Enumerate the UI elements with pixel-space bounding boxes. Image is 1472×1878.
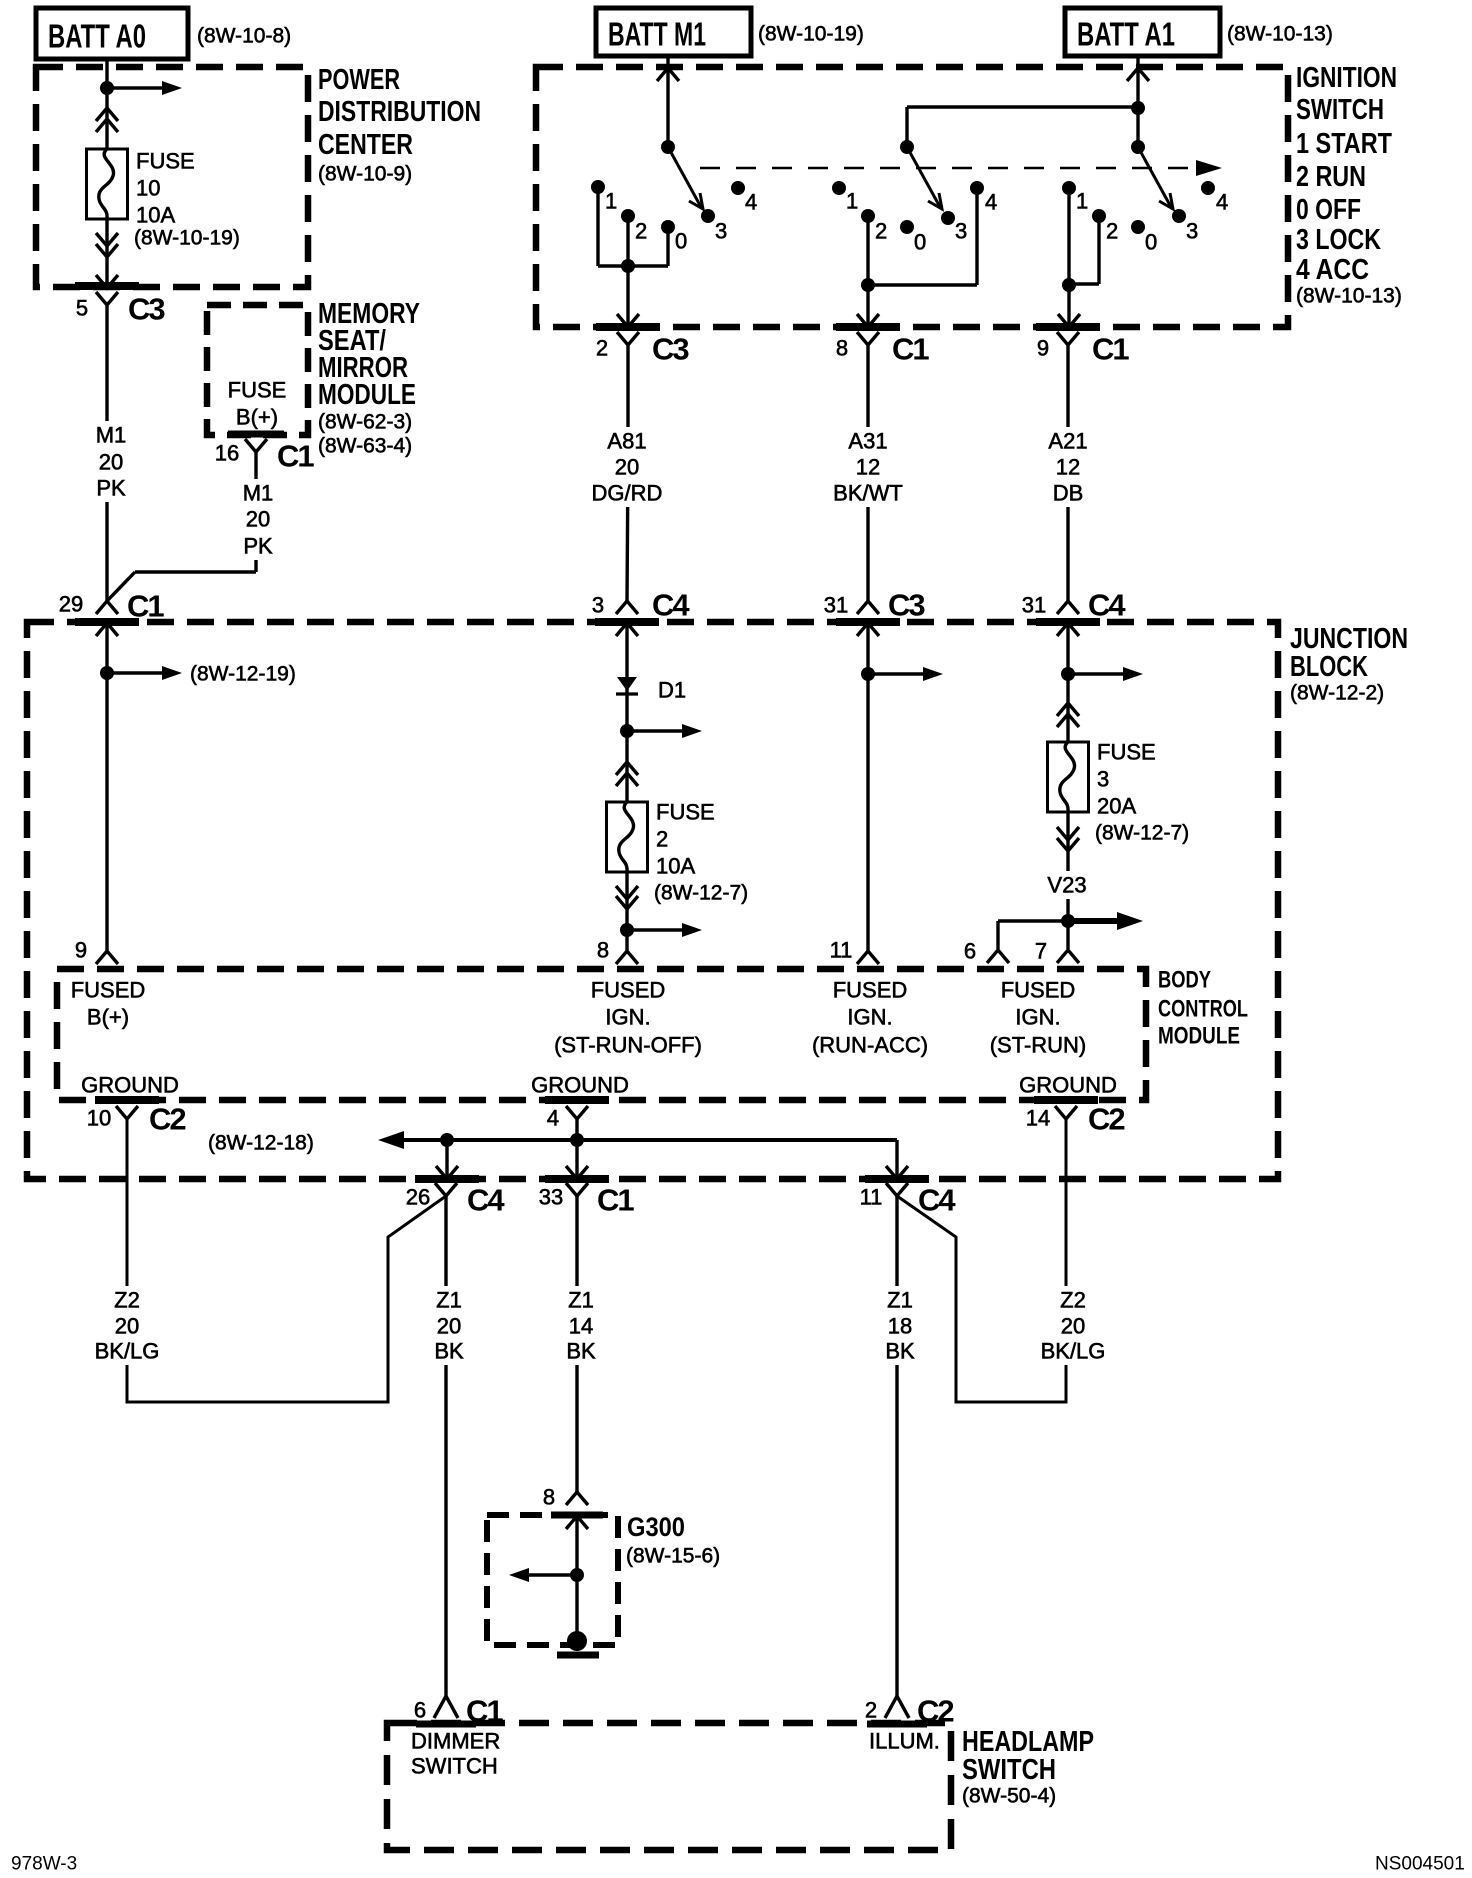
module box JUNCTION BLOCK	[27, 622, 1278, 1179]
current-path chevrons above fuse 2	[616, 762, 638, 775]
svg-text:(8W-10-19): (8W-10-19)	[134, 227, 240, 250]
connector pad at memory module outlet	[228, 431, 284, 438]
svg-text:978W-3: 978W-3	[11, 1854, 77, 1875]
wire below fuse 3 node V23	[1066, 812, 1069, 949]
svg-text:10: 10	[87, 1106, 111, 1131]
svg-text:4: 4	[1216, 190, 1228, 215]
svg-text:BK: BK	[566, 1339, 596, 1364]
svg-text:IGN.: IGN.	[847, 1005, 892, 1030]
svg-text:(ST-RUN-OFF): (ST-RUN-OFF)	[554, 1033, 702, 1058]
svg-text:IGN.: IGN.	[1015, 1005, 1060, 1030]
connector pad at BCM pin 4	[545, 1096, 609, 1104]
svg-text:(8W-10-13): (8W-10-13)	[1227, 23, 1333, 46]
svg-text:20A: 20A	[1097, 794, 1136, 819]
svg-text:(8W-10-9): (8W-10-9)	[318, 163, 412, 186]
svg-text:C4: C4	[1088, 588, 1126, 623]
svg-text:ILLUM.: ILLUM.	[869, 1729, 940, 1754]
svg-text:(8W-15-6): (8W-15-6)	[626, 1545, 720, 1568]
module box IGNITION SWITCH	[536, 67, 1288, 327]
wire label Z1 18 BK	[876, 1286, 924, 1365]
svg-text:Z2: Z2	[1060, 1288, 1086, 1313]
svg-text:2: 2	[596, 336, 608, 361]
svg-text:A21: A21	[1048, 429, 1087, 454]
connector pad at G300	[551, 1512, 603, 1519]
switch wafer 2 feed from BATT A1 bus	[905, 107, 908, 147]
switch 3 contact 3	[1172, 209, 1186, 223]
svg-text:1 START: 1 START	[1296, 128, 1392, 160]
svg-text:C4: C4	[918, 1183, 956, 1218]
svg-text:G300: G300	[627, 1512, 685, 1542]
wire V23 branch to pin 6	[998, 919, 1068, 922]
switch 1 contact wiring	[596, 191, 599, 266]
connector pad at junction block pin 31 C3	[836, 618, 900, 626]
switch 1 output stem to pin 2	[626, 266, 629, 325]
svg-text:9: 9	[1037, 336, 1049, 361]
switch 3 contact 1	[1062, 181, 1076, 195]
svg-text:FUSED: FUSED	[591, 978, 666, 1003]
svg-text:SWITCH: SWITCH	[1296, 94, 1384, 126]
switch 2 contact 2	[861, 209, 875, 223]
connector C2 pin 14 of BCM	[1055, 1106, 1077, 1119]
connector pin 8 at ground G300	[566, 1492, 588, 1505]
svg-text:11: 11	[830, 938, 853, 963]
svg-text:MODULE: MODULE	[1158, 1023, 1240, 1050]
fuse 3 20A in junction block	[1048, 742, 1089, 812]
arrow branch to (8W-12-19)	[107, 671, 168, 674]
arrow branch on A21 wire	[1068, 672, 1129, 675]
switch wafer 1 blade to position 3	[668, 147, 701, 207]
switch 2 contact 3	[941, 211, 955, 225]
svg-text:0: 0	[914, 230, 926, 255]
svg-text:DISTRIBUTION: DISTRIBUTION	[318, 96, 481, 128]
wire Z1 18 BK to headlamp switch	[895, 1196, 898, 1696]
svg-text:FUSED: FUSED	[1001, 978, 1076, 1003]
wire BATT A1 into ignition switch	[1136, 56, 1139, 147]
current-path chevrons below fuse 3	[1057, 827, 1079, 840]
svg-text:33: 33	[539, 1185, 563, 1210]
svg-text:26: 26	[406, 1185, 430, 1210]
fuse 2 10A in junction block	[607, 802, 648, 872]
wire label Z1 20 BK	[425, 1286, 473, 1365]
svg-text:4: 4	[745, 190, 757, 215]
connector C1 pin 16 of memory module	[245, 439, 267, 452]
module box BODY CONTROL MODULE	[57, 969, 1146, 1100]
svg-text:7: 7	[1035, 939, 1047, 964]
connector pad at headlamp switch pin 2	[867, 1721, 927, 1728]
arrow branch from V23	[1068, 918, 1123, 924]
svg-text:Z2: Z2	[114, 1288, 140, 1313]
connector pad at junction block pin 31 C4	[1036, 618, 1100, 626]
svg-text:4: 4	[985, 190, 997, 215]
svg-text:BK/WT: BK/WT	[833, 481, 903, 506]
BCM terminal pin 11 fused ign run-acc	[857, 951, 879, 964]
svg-text:6: 6	[964, 939, 976, 964]
switch wafer 3 blade to position 3	[1138, 147, 1171, 207]
svg-text:BATT M1: BATT M1	[608, 16, 706, 53]
connector pad at junction block pin 26	[415, 1175, 479, 1183]
svg-text:NS004501: NS004501	[1375, 1854, 1465, 1875]
svg-text:12: 12	[1056, 455, 1080, 480]
svg-text:3: 3	[715, 219, 727, 244]
svg-text:C3: C3	[652, 332, 689, 367]
switch 3 output stem to pin 9	[1067, 285, 1070, 325]
svg-text:1: 1	[1076, 189, 1088, 214]
module box MEMORY SEAT/MIRROR MODULE	[207, 305, 308, 435]
current-path chevrons above fuse 3	[1057, 703, 1079, 716]
svg-text:6: 6	[414, 1698, 426, 1723]
switch 3 contact 2	[1092, 209, 1106, 223]
connector C4 pin 31 of junction block	[1057, 601, 1079, 614]
battery feed box BATT A1	[1065, 8, 1220, 56]
switch 1 contact 2	[621, 209, 635, 223]
ground bus wire inside junction block	[398, 1138, 897, 1142]
connector C3 pin 5 of PDC	[96, 292, 118, 305]
ganged-switch dashed link line	[700, 167, 1196, 170]
switch 3 contact wiring	[1067, 192, 1070, 285]
switch 2 contact 4	[970, 181, 984, 195]
svg-text:3 LOCK: 3 LOCK	[1296, 224, 1381, 256]
svg-text:16: 16	[215, 441, 239, 466]
terminal arrow into junction block pin 11	[886, 1166, 908, 1179]
svg-text:20: 20	[437, 1314, 461, 1339]
wire Z1 20 BK to dimmer switch	[444, 1196, 447, 1696]
terminal arrow into junction block pin 26	[436, 1166, 458, 1179]
wire label M1 20 PK	[87, 421, 135, 502]
svg-text:2: 2	[875, 219, 887, 244]
connector pin 4 of BCM	[566, 1106, 588, 1119]
svg-text:Z1: Z1	[568, 1288, 594, 1313]
wire from pin 31 C4 to fuse 3	[1066, 623, 1069, 742]
fuse 10 10A in PDC	[87, 149, 128, 219]
svg-text:M1: M1	[243, 481, 274, 506]
connector C4 pin 3 of junction block	[616, 601, 638, 614]
switch 1 contact 0	[661, 220, 675, 234]
svg-text:(8W-50-4): (8W-50-4)	[962, 1785, 1056, 1808]
svg-text:C1: C1	[1092, 332, 1129, 367]
switch 2 contact 1	[832, 181, 846, 195]
wire fused ignition run-acc through junction block	[866, 623, 869, 951]
svg-text:10A: 10A	[136, 203, 175, 228]
connector C1 pin 9 of ignition switch	[1057, 332, 1079, 345]
svg-text:IGNITION: IGNITION	[1296, 62, 1397, 94]
terminal arrow into ignition switch (BATT A1)	[1127, 68, 1149, 81]
wire A31 from ignition switch to BCM	[866, 345, 869, 601]
wire Z1 14 BK to ground G300	[575, 1196, 578, 1492]
connector pad at BCM pin 10	[95, 1096, 159, 1104]
wire BATT M1 into ignition switch	[666, 56, 669, 147]
wire label Z2 20 BK/LG left	[94, 1286, 160, 1365]
connector C4 pin 26 below junction block	[435, 1183, 457, 1196]
svg-text:BATT A0: BATT A0	[48, 18, 146, 55]
svg-text:DG/RD: DG/RD	[592, 481, 663, 506]
svg-text:D1: D1	[658, 678, 686, 703]
svg-text:DB: DB	[1053, 481, 1084, 506]
svg-text:2: 2	[1106, 219, 1118, 244]
svg-text:20: 20	[1061, 1314, 1085, 1339]
svg-text:4 ACC: 4 ACC	[1296, 254, 1369, 286]
module box HEADLAMP SWITCH	[387, 1723, 951, 1850]
svg-text:M1: M1	[96, 423, 127, 448]
svg-text:8: 8	[597, 938, 609, 963]
current-path chevrons below fuse 10	[96, 233, 118, 246]
svg-text:B(+): B(+)	[236, 405, 278, 430]
svg-text:20: 20	[246, 507, 270, 532]
svg-text:FUSE: FUSE	[656, 800, 715, 825]
junction node on A21 wire	[1061, 667, 1075, 681]
switch 1 contact 3	[701, 209, 715, 223]
svg-text:(8W-12-18): (8W-12-18)	[208, 1132, 314, 1155]
connector pad at junction block pin 29	[75, 618, 139, 626]
junction node BATT A1 bus	[1131, 101, 1145, 115]
connector C1 pin 33 below junction block	[566, 1183, 588, 1196]
junction node ground bus left	[440, 1133, 454, 1147]
svg-text:(8W-12-7): (8W-12-7)	[654, 882, 748, 905]
connector C2 pin 2 of headlamp switch	[885, 1696, 909, 1718]
svg-text:FUSE: FUSE	[136, 149, 195, 174]
connector pad at ignition switch pin 9	[1036, 323, 1100, 331]
junction node ground bus right	[570, 1133, 584, 1147]
svg-text:GROUND: GROUND	[531, 1073, 629, 1098]
svg-text:8: 8	[543, 1485, 555, 1510]
wire below fuse 10	[105, 219, 108, 286]
connector C3 pin 31 of junction block	[857, 601, 879, 614]
wire label Z2 20 BK/LG right	[1040, 1286, 1106, 1365]
svg-text:BK: BK	[885, 1339, 915, 1364]
switch 2 output stem to pin 8	[866, 285, 869, 325]
junction node at pin 8 feed	[620, 923, 634, 937]
svg-text:C2: C2	[1088, 1102, 1124, 1137]
connector C3 pin 2 of ignition switch	[617, 332, 639, 345]
svg-text:C4: C4	[652, 588, 690, 623]
svg-text:BK: BK	[434, 1339, 464, 1364]
switch wafer 2 pivot	[900, 140, 914, 154]
svg-text:CONTROL: CONTROL	[1158, 996, 1248, 1023]
svg-text:C3: C3	[888, 588, 925, 623]
wire inside G300	[575, 1516, 578, 1636]
svg-text:IGN.: IGN.	[605, 1005, 650, 1030]
BCM terminal pin 9 fused B+	[96, 951, 118, 964]
arrow branch at pin 8 feed	[627, 928, 688, 931]
svg-text:V23: V23	[1047, 873, 1086, 898]
svg-text:2: 2	[635, 219, 647, 244]
connector pad at BCM pin 14	[1034, 1096, 1098, 1104]
svg-text:3: 3	[1186, 219, 1198, 244]
wire label Z1 14 BK	[557, 1286, 605, 1365]
node label V23	[1039, 871, 1095, 899]
connector C4 pin 11 below junction block	[886, 1183, 908, 1196]
svg-text:BK/LG: BK/LG	[95, 1339, 160, 1364]
switch wafer 2 blade to position 3	[907, 147, 940, 207]
connector C1 pin 8 of ignition switch	[857, 332, 879, 345]
svg-text:0: 0	[1145, 230, 1157, 255]
svg-text:(8W-10-13): (8W-10-13)	[1296, 285, 1402, 308]
switch 3 contact 4	[1201, 181, 1215, 195]
arrow branch in G300	[523, 1573, 577, 1576]
svg-text:POWER: POWER	[318, 64, 400, 96]
svg-text:(8W-12-19): (8W-12-19)	[190, 663, 296, 686]
svg-text:4: 4	[547, 1106, 559, 1131]
svg-text:BK/LG: BK/LG	[1041, 1339, 1106, 1364]
terminal chevron into G300	[566, 1516, 588, 1529]
svg-text:Z1: Z1	[436, 1288, 462, 1313]
svg-text:C2: C2	[149, 1102, 185, 1137]
svg-text:FUSED: FUSED	[833, 978, 908, 1003]
svg-text:1: 1	[605, 189, 617, 214]
connector C1 pin 29 of junction block	[96, 601, 118, 614]
connector pad at junction block pin 3	[595, 618, 659, 626]
ground symbol G300	[567, 1631, 587, 1651]
ground splice box G300	[487, 1515, 618, 1645]
svg-text:B(+): B(+)	[87, 1005, 129, 1030]
svg-text:GROUND: GROUND	[81, 1073, 179, 1098]
svg-text:9: 9	[75, 938, 87, 963]
current-path chevrons below fuse 2	[616, 886, 638, 899]
svg-text:20: 20	[615, 455, 639, 480]
svg-text:3: 3	[1097, 767, 1109, 792]
arrow branch to other circuits	[107, 86, 168, 89]
module box POWER DISTRIBUTION CENTER	[36, 67, 308, 287]
arrow branch on A31 wire	[868, 672, 929, 675]
wire Z2 ground loop left (BCM pin 10 to pin 26)	[127, 1119, 446, 1402]
svg-text:5: 5	[76, 296, 88, 321]
svg-text:FUSED: FUSED	[71, 978, 146, 1003]
svg-text:C1: C1	[597, 1183, 634, 1218]
junction node in G300	[570, 1568, 584, 1582]
svg-text:BATT A1: BATT A1	[1077, 16, 1175, 53]
connector C2 pin 10 of BCM	[116, 1106, 138, 1119]
wire fused B+ inside junction block	[105, 623, 108, 951]
switch 2 contact wiring	[866, 220, 869, 285]
svg-text:SWITCH: SWITCH	[962, 1754, 1056, 1786]
connector pad at ignition switch pin 8	[836, 323, 900, 331]
svg-text:18: 18	[888, 1314, 912, 1339]
BCM terminal pin 6 fused ign st-run	[987, 950, 1009, 963]
BCM terminal pin 8 fused ign st-run-off	[616, 951, 638, 964]
svg-text:10A: 10A	[656, 854, 695, 879]
diode D1	[617, 677, 637, 691]
svg-text:MODULE: MODULE	[318, 379, 416, 411]
svg-text:(8W-62-3): (8W-62-3)	[318, 411, 412, 434]
svg-text:A31: A31	[848, 429, 887, 454]
svg-text:3: 3	[955, 219, 967, 244]
svg-text:2: 2	[865, 1698, 877, 1723]
wire label A81 20 DG/RD	[594, 427, 660, 507]
switch 2 contact 0	[900, 220, 914, 234]
svg-text:2 RUN: 2 RUN	[1296, 161, 1366, 193]
terminal arrow into junction block pin 33	[566, 1166, 588, 1179]
svg-text:14: 14	[569, 1314, 593, 1339]
junction node after D1	[620, 724, 634, 738]
svg-text:3: 3	[592, 593, 604, 618]
svg-text:1: 1	[846, 189, 858, 214]
svg-text:C3: C3	[128, 292, 165, 327]
connector pad at junction block pin 11 C4	[865, 1175, 929, 1183]
terminal arrow into ignition switch (BATT M1)	[657, 68, 679, 81]
wire label A21 12 DB	[1040, 427, 1096, 507]
svg-text:31: 31	[824, 593, 848, 618]
svg-text:C4: C4	[467, 1183, 505, 1218]
wire label A31 12 BK/WT	[835, 427, 901, 507]
wire A21 from ignition switch to junction block	[1066, 345, 1069, 601]
wire M1 from PDC pin 5 to junction block pin 29	[105, 305, 108, 601]
svg-text:C1: C1	[277, 439, 314, 474]
svg-text:12: 12	[856, 455, 880, 480]
svg-text:PK: PK	[96, 476, 126, 501]
svg-text:14: 14	[1026, 1106, 1050, 1131]
svg-text:SWITCH: SWITCH	[411, 1754, 498, 1779]
current-path chevrons above fuse 10	[96, 108, 118, 121]
svg-text:10: 10	[136, 176, 160, 201]
connector pad at PDC outlet	[75, 282, 139, 290]
switch wafer 1 pivot	[661, 140, 675, 154]
junction node on A31 wire	[861, 667, 875, 681]
svg-text:BLOCK: BLOCK	[1290, 651, 1368, 683]
svg-text:(8W-12-2): (8W-12-2)	[1290, 682, 1384, 705]
svg-text:GROUND: GROUND	[1019, 1073, 1117, 1098]
svg-text:PK: PK	[243, 534, 273, 559]
svg-text:CENTER: CENTER	[318, 129, 413, 161]
wire below fuse 2	[625, 872, 628, 951]
switch 1 contact 1	[591, 180, 605, 194]
wire BATT A0 feed into PDC	[105, 59, 108, 149]
svg-text:BODY: BODY	[1158, 967, 1211, 994]
svg-text:0 OFF: 0 OFF	[1296, 194, 1361, 226]
wire M1 from memory module to splice	[254, 452, 257, 572]
switch wafer 3 pivot	[1131, 140, 1145, 154]
connector C1 pin 6 of headlamp switch	[434, 1696, 458, 1718]
svg-text:29: 29	[59, 592, 83, 617]
svg-text:(8W-10-19): (8W-10-19)	[758, 23, 864, 46]
svg-text:8: 8	[836, 336, 848, 361]
switch 3 contact 0	[1131, 220, 1145, 234]
svg-text:C1: C1	[892, 332, 929, 367]
battery feed box BATT A0	[36, 8, 188, 59]
svg-text:20: 20	[115, 1314, 139, 1339]
svg-text:FUSE: FUSE	[228, 378, 287, 403]
junction node in PDC	[100, 81, 114, 95]
switch 1 contact 4	[731, 181, 745, 195]
svg-text:2: 2	[656, 827, 668, 852]
arrow branch after D1	[627, 729, 688, 732]
svg-text:Z1: Z1	[887, 1288, 913, 1313]
battery feed box BATT M1	[596, 8, 751, 56]
svg-text:(8W-12-7): (8W-12-7)	[1095, 822, 1189, 845]
svg-text:(8W-10-8): (8W-10-8)	[197, 25, 291, 48]
svg-text:(ST-RUN): (ST-RUN)	[990, 1033, 1087, 1058]
wire label M1 20 PK (memory module)	[234, 479, 282, 560]
male terminal at PDC outlet pin 5	[96, 275, 118, 288]
junction node to 8W-12-19	[100, 666, 114, 680]
junction node V23	[1061, 914, 1075, 928]
connector pad at headlamp switch pin 6	[416, 1721, 476, 1728]
wire from pin 3 C4 through diode D1	[625, 623, 628, 802]
connector pad at junction block pin 33	[545, 1175, 609, 1183]
wire A81 from ignition switch to junction block	[626, 345, 629, 460]
connector pad at ignition switch pin 2	[596, 323, 660, 331]
svg-text:0: 0	[675, 229, 687, 254]
svg-text:(RUN-ACC): (RUN-ACC)	[812, 1033, 928, 1058]
svg-text:11: 11	[860, 1185, 883, 1210]
svg-text:FUSE: FUSE	[1097, 740, 1156, 765]
svg-text:DIMMER: DIMMER	[411, 1729, 500, 1754]
svg-text:(8W-63-4): (8W-63-4)	[318, 435, 412, 458]
wire Z2 ground loop right (BCM pin 14 to pin 11)	[897, 1119, 1066, 1402]
BCM terminal pin 7 fused ign st-run	[1057, 950, 1079, 963]
svg-text:31: 31	[1022, 593, 1046, 618]
svg-text:20: 20	[99, 450, 123, 475]
svg-text:A81: A81	[607, 429, 646, 454]
